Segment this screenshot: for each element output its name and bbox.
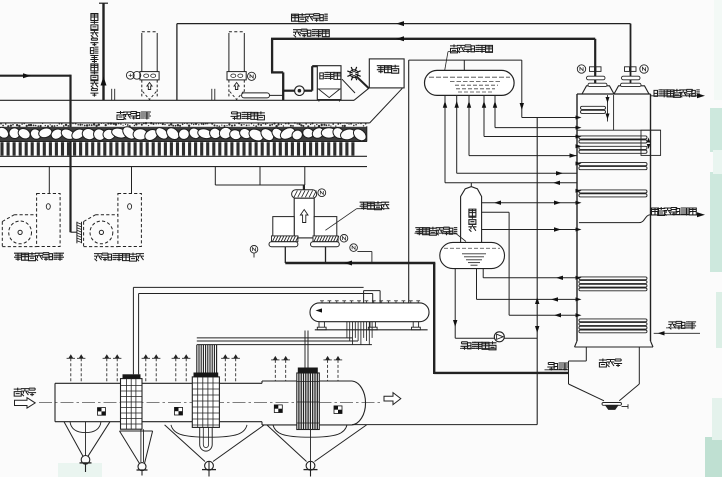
hopper 4	[273, 425, 347, 437]
wire: hot air duct to blower damper	[0, 75, 71, 77]
valve circle at silencer	[318, 189, 326, 197]
duct rounded end cap	[352, 381, 366, 425]
hopper discharge valve	[602, 403, 622, 406]
stack 1 valve circles	[126, 71, 134, 79]
duct centerline	[39, 401, 383, 403]
steam circuit riser from discharge area	[408, 60, 410, 303]
low-parameter steam drum	[440, 242, 505, 268]
boiler shell	[576, 94, 578, 341]
label: low-parameter steam drum	[415, 228, 423, 236]
dust-recycle pipe A	[133, 286, 363, 288]
bypass stack 1	[141, 33, 143, 80]
duct stub to circulating fan	[303, 185, 305, 190]
heat-pipe unit B across duct	[192, 377, 219, 428]
boiler outlet cap left	[582, 86, 614, 94]
flue gas recirculation duct (thick)	[434, 372, 568, 374]
circulating fan legs	[284, 247, 286, 263]
economizer coil bank 2	[579, 319, 647, 322]
label: flue gas out	[547, 363, 555, 371]
stack 2 valve circle	[248, 72, 256, 80]
label: high-parameter steam export	[654, 90, 662, 97]
heat-pipe header lines to duct unit	[197, 337, 353, 339]
drum support stands	[318, 322, 320, 328]
hopper 1	[70, 422, 101, 433]
external header box	[641, 130, 661, 155]
boiler bottom flare	[575, 341, 578, 347]
low-parameter flue gas line	[177, 23, 631, 25]
valve circle left of fan base	[250, 246, 258, 254]
instrument markers in duct	[98, 408, 106, 416]
lp drum level marks	[444, 247, 500, 249]
dust-recycle pipe B	[139, 293, 373, 295]
vertical label: to main exhaust system	[91, 14, 98, 21]
discharge point box	[369, 59, 404, 88]
feed water inlet line	[654, 332, 700, 334]
drum saturated steam riser	[463, 60, 465, 70]
boiler feed water pump	[494, 332, 504, 342]
cooler discharge-end chute diagonals	[354, 88, 369, 100]
label: boiler feed water pump	[461, 342, 469, 350]
label: flue gas in	[14, 388, 22, 397]
label: No.2 ring cooler blower	[94, 254, 102, 262]
main duct left section	[54, 383, 56, 421]
unit C riser pair to evaporator base	[304, 331, 306, 368]
circulating fan casing	[294, 198, 314, 238]
right cap valve	[625, 67, 630, 72]
wind box under cooler	[214, 167, 216, 185]
dust collector funnel	[317, 88, 341, 90]
riser to boiler outlet left cap	[594, 39, 596, 83]
high-parameter steam drum	[425, 70, 515, 95]
spray stub groups on duct top	[67, 354, 86, 383]
drum manway notch	[363, 291, 365, 303]
label: circulating fan	[360, 202, 368, 210]
label: deaerator head (vertical)	[469, 209, 476, 216]
superheater downcomer	[521, 60, 523, 117]
evaporator coil bank 4	[579, 190, 647, 193]
water line along duct bottom	[352, 424, 537, 426]
teal background patches (page background showing at edges)	[710, 108, 722, 152]
unit C across duct (tube nest)	[297, 373, 320, 430]
label: high-parameter flue gas	[293, 30, 301, 38]
duct exit block arrow	[384, 393, 401, 405]
bag filter unit A across duct	[121, 379, 143, 430]
drop leg of low-parameter line into hood	[176, 24, 178, 101]
duct from staircase to booster fan	[283, 90, 295, 92]
deaerator vent to line	[470, 183, 472, 187]
evaporator coil bank 1	[579, 136, 647, 139]
ring cooler hood bottom chord	[0, 122, 370, 124]
settling chamber hopper	[569, 384, 605, 401]
blower no.3 (dashed)	[37, 194, 61, 247]
label: No.3 ring cooler blower	[14, 253, 22, 261]
hatched base strip left	[272, 236, 298, 242]
valve circles near fan outlet	[340, 235, 348, 243]
chute from star feeder (thick)	[357, 77, 370, 89]
sinter pebble bed on trolleys	[0, 127, 367, 141]
evaporator coil bank 2	[579, 146, 647, 149]
dust collector box	[317, 66, 341, 100]
label: ring cooler section 2	[117, 111, 125, 120]
superheater coil	[581, 106, 606, 109]
duct fan to dust collector	[304, 90, 312, 92]
heat-pipe evaporator drum	[310, 303, 429, 322]
drum risers from boiler	[444, 95, 446, 182]
trolley grate bars	[0, 142, 367, 156]
boiler internal partition	[613, 95, 615, 130]
hood divider walls	[111, 89, 113, 101]
label: ring cooler section 1	[231, 112, 239, 120]
chute from dust collector to cooler	[342, 79, 355, 93]
economizer coil bank 1	[579, 277, 647, 280]
drop duct to blower 3	[48, 167, 50, 194]
rotary star feeder	[350, 70, 358, 78]
evaporator coil bank 3	[579, 163, 647, 166]
deaerator head	[461, 187, 482, 243]
fan side box left	[273, 217, 294, 237]
fan side box right	[314, 217, 337, 237]
blower no.2 (dashed)	[118, 194, 141, 247]
drop duct to blower 2	[131, 167, 133, 194]
boiler wall entry arrowheads	[576, 116, 582, 120]
lp steam export header	[579, 215, 651, 223]
slide gate flange on hood connection	[242, 94, 284, 96]
unit B heat-pipe bundle risers	[197, 345, 217, 373]
left cap valve	[590, 67, 595, 72]
label: high-parameter steam drum	[450, 44, 458, 53]
hopper 3	[171, 425, 247, 437]
pebble bed right end wall	[366, 126, 368, 141]
damper ladder at blower 2 inlet	[71, 231, 77, 233]
drum base line	[315, 329, 428, 331]
base pad left	[269, 242, 298, 247]
drum top stubs	[320, 301, 420, 303]
base pad right	[311, 242, 340, 247]
high-parameter flue gas line (thick)	[271, 38, 595, 40]
boiler outlet cap right	[614, 86, 649, 94]
ring cooler hood top chord	[0, 99, 354, 101]
riser to boiler outlet right cap	[630, 24, 632, 84]
booster fan	[295, 86, 305, 96]
stack exhaust line (to de-dusting system)	[102, 3, 104, 100]
steam header line to superheater	[409, 59, 522, 61]
flue gas inlet block arrow	[15, 398, 36, 408]
label: dust collector	[320, 72, 328, 79]
unit A hopper	[120, 431, 140, 464]
steam/water lines between drums and boiler	[522, 117, 577, 119]
main duct right section	[261, 381, 263, 383]
label: discharge point	[377, 66, 385, 74]
drum internal level text	[429, 76, 510, 78]
thick staircase of high-parameter line into hood	[271, 39, 273, 73]
fine sinter speckle band	[0, 122, 366, 127]
label: settling chamber	[599, 359, 607, 368]
unit B hanging thermosiphon tube	[199, 427, 201, 444]
trolley bottom rails	[0, 155, 367, 157]
circulating fan inlet silencer	[292, 190, 317, 198]
drum downcomer tube cluster	[347, 322, 372, 345]
settling chamber body	[585, 347, 587, 361]
label: low-parameter steam export	[652, 208, 659, 215]
bypass stack 2	[228, 33, 230, 80]
label: boiler feed water	[668, 322, 676, 330]
label: low-parameter flue gas	[292, 14, 299, 21]
hatched base strip right	[313, 236, 338, 242]
